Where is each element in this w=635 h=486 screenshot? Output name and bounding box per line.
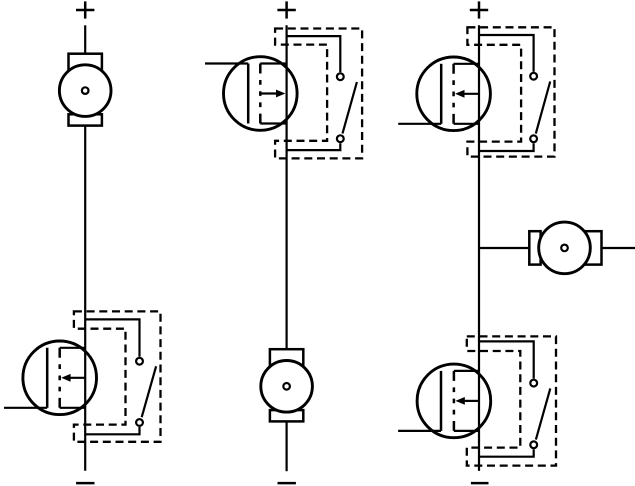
wire: Q3 drain node to switch S3 top terminal: [479, 35, 534, 72]
wire: Q2 source node to switch S2 top terminal: [287, 36, 341, 72]
supply + terminal (column 1): [76, 1, 94, 18]
wire: motor M2 to ground: [286, 421, 288, 471]
wire: half-bridge output node to motor M3: [479, 247, 529, 249]
motor M3: [529, 222, 601, 274]
switch S2 blade: [343, 82, 357, 134]
switch S2 top terminal: [337, 73, 344, 80]
wire: Q4 drain node to switch S4 top terminal: [479, 341, 534, 378]
transistor Q1 : N-channel MOSFET: [4, 341, 97, 415]
dashed box: switch equivalent of Q3: [467, 27, 554, 156]
switch S3 blade: [536, 82, 550, 134]
supply + terminal (column 3): [470, 1, 488, 18]
switch S1 blade: [142, 366, 156, 417]
switch S3 top terminal: [530, 73, 537, 80]
ground (column 2): [278, 482, 296, 485]
transistor Q3 : N-channel MOSFET: [398, 57, 490, 131]
wire: + supply to motor M1: [84, 25, 86, 53]
switch S1 bottom terminal: [136, 419, 143, 426]
transistor Q2 : P-channel MOSFET: [205, 57, 297, 131]
wire: + supply down through Q3 and Q4 to ground: [478, 25, 480, 471]
wire: motor M3 to right edge: [602, 247, 635, 249]
wire: switch S3 bottom terminal to Q3 source node: [479, 143, 534, 151]
wire: Q1 drain node to switch S1 top terminal: [85, 319, 139, 356]
motor M1: [59, 54, 111, 126]
wire: switch S1 bottom terminal to Q1 source node: [85, 427, 139, 434]
wire: switch S4 bottom terminal to Q4 source node: [479, 449, 534, 456]
supply + terminal (column 2): [277, 1, 295, 18]
ground (column 1): [76, 482, 94, 485]
wire: motor M1 down through Q1 to ground: [84, 126, 86, 471]
wire: + supply down through Q2 to motor M2: [286, 25, 288, 349]
dashed box: switch equivalent of Q4: [467, 336, 556, 465]
switch S2 bottom terminal: [337, 135, 344, 142]
switch S3 bottom terminal: [530, 135, 537, 142]
dashed box: switch equivalent of Q2: [275, 29, 362, 159]
wire: switch S2 bottom terminal to Q2 drain node: [287, 143, 341, 150]
switch S4 blade: [536, 388, 550, 439]
switch S4 top terminal: [530, 380, 537, 387]
dashed box: switch equivalent of Q1: [74, 311, 161, 441]
ground (column 3): [471, 482, 489, 485]
motor M2: [261, 349, 313, 421]
switch S1 top terminal: [136, 358, 143, 365]
transistor Q4 : N-channel MOSFET: [398, 364, 491, 438]
switch S4 bottom terminal: [530, 441, 537, 448]
